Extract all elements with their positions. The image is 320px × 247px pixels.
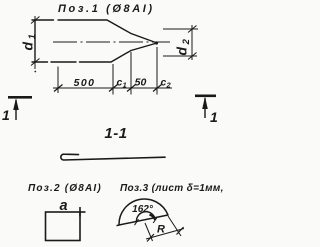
section mark left: thick bar [8, 96, 32, 99]
rod Pos.1 outline [32, 20, 157, 62]
svg-text:1: 1 [210, 109, 218, 125]
extension line at x113 [112, 64, 114, 95]
rod centerline [53, 41, 170, 43]
svg-text:R: R [157, 224, 165, 236]
extension line at x131 [130, 52, 132, 95]
svg-text:1: 1 [2, 107, 10, 123]
svg-text:50: 50 [135, 77, 147, 89]
d1 line tail dot [34, 71, 36, 73]
square piece Pos.2 [46, 207, 86, 241]
R dimension line [146, 229, 184, 240]
hook profile (section 1-1) [61, 154, 165, 160]
svg-text:162°: 162° [132, 204, 154, 215]
svg-text:a: a [59, 198, 67, 214]
section mark left: arrow [15, 100, 17, 120]
slash tick at 131 [127, 85, 136, 92]
dome segment piece Pos.3 [117, 199, 169, 226]
dimension chain line [53, 87, 172, 89]
R dim slash left [147, 234, 154, 242]
section mark right: arrow [204, 98, 206, 118]
dimension d1 [31, 16, 40, 69]
dimension d2 [163, 25, 198, 60]
svg-text:Поз.2 (Ø8АI): Поз.2 (Ø8АI) [28, 183, 102, 194]
angle arc tick left [135, 219, 139, 225]
angle arc tick right [153, 217, 157, 223]
rod tip dot [155, 41, 158, 44]
paper background [0, 0, 223, 247]
angle arc 162 [136, 212, 155, 223]
svg-text:500: 500 [74, 77, 96, 89]
extension line at x58 [57, 67, 59, 94]
R extension line left [145, 223, 153, 241]
section mark right: thick bar [195, 95, 216, 98]
R extension line right [168, 216, 181, 236]
slash tick at 157 [153, 85, 162, 92]
slash tick at 58 [54, 85, 63, 92]
extension line at x157 [156, 47, 158, 95]
svg-text:2: 2 [166, 81, 172, 90]
R dim slash right [177, 227, 184, 235]
svg-text:1: 1 [123, 81, 127, 90]
svg-text:Поз.3 (лист δ=1мм,: Поз.3 (лист δ=1мм, [120, 183, 223, 194]
svg-text:Поз.1 (Ø8АI): Поз.1 (Ø8АI) [58, 3, 155, 15]
svg-text:1-1: 1-1 [104, 125, 127, 142]
slash tick at 113 [109, 85, 118, 92]
